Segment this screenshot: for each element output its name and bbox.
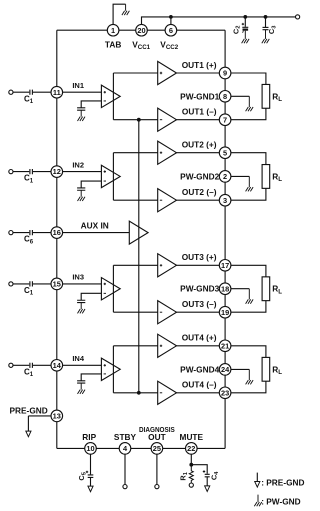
ground PW-GND under input cap (ch3): [78, 303, 86, 314]
svg-text:OUT4 (–): OUT4 (–): [182, 380, 217, 390]
svg-text:STBY: STBY: [114, 432, 137, 442]
svg-text:RIP: RIP: [82, 432, 96, 442]
ground PW-GND at pin stub (ch4): [246, 369, 254, 384]
svg-text:C1: C1: [24, 367, 34, 378]
pin 4 STBY: [119, 443, 131, 455]
capacitor AC-ground (ch3): [77, 300, 85, 302]
svg-text:20: 20: [137, 26, 145, 35]
pin 20 VCC1: [136, 24, 148, 36]
svg-text:OUT1 (+): OUT1 (+): [182, 60, 217, 70]
pin 23 OUT4(-): [219, 387, 231, 399]
wire C6 to pin 16: [33, 232, 51, 234]
svg-text:25: 25: [153, 444, 161, 453]
wire pin to load RL top (ch4): [231, 346, 266, 358]
wire pin to load RL top (ch1): [231, 73, 266, 84]
svg-text:C4: C4: [210, 471, 220, 480]
svg-text:11: 11: [53, 88, 61, 97]
wire branch vertical (ch1): [112, 73, 114, 120]
node input terminal IN2: [9, 170, 13, 174]
wire branch vertical (ch2): [112, 153, 114, 201]
svg-text:OUT3 (–): OUT3 (–): [182, 299, 217, 309]
minus marker OUT4(-) amp: [160, 392, 162, 394]
wire inverting input stub (ch4): [81, 374, 101, 381]
wire right bus (output pins column): [224, 30, 226, 448]
wire OUT4(+) amp to pin: [177, 345, 220, 347]
wire OUT1(-) amp to pin: [177, 119, 220, 121]
pin 21 OUT4(+): [219, 340, 231, 352]
wire OUT3(-) amp to pin: [177, 311, 220, 313]
svg-text:R1: R1: [179, 471, 189, 480]
svg-text:: PRE-GND: : PRE-GND: [261, 478, 304, 488]
svg-text:OUT3 (+): OUT3 (+): [182, 252, 217, 262]
pin 3 OUT2(-): [219, 194, 231, 206]
svg-text:24: 24: [221, 365, 230, 374]
wire C1 to pin 15: [33, 283, 51, 285]
junction mute node: [189, 463, 193, 467]
wire PW-GND3 pin stub: [231, 288, 249, 290]
plus marker OUT3(+) amp: [160, 264, 162, 266]
capacitor C4 (mute): [205, 474, 210, 477]
ground PW-GND under C3: [262, 30, 270, 44]
wire bottom bus (RIP/STBY/OUT/MUTE row): [57, 447, 225, 449]
svg-text:PW-GND2: PW-GND2: [180, 171, 219, 181]
svg-text:OUT4 (+): OUT4 (+): [182, 333, 217, 343]
label C2: [231, 26, 241, 35]
svg-text:9: 9: [223, 69, 227, 78]
capacitor C1 input coupling (ch3): [30, 281, 33, 286]
ground PW-GND under C2: [242, 31, 250, 44]
wire input terminal to capacitor C1 (ch2): [13, 171, 29, 173]
svg-text:8: 8: [223, 92, 227, 101]
wire centre bus (ch1 to ch4): [138, 120, 140, 393]
svg-text:C1: C1: [24, 174, 34, 185]
op-amp output stage OUT4(+): [158, 334, 177, 357]
svg-text:RL: RL: [272, 364, 282, 376]
svg-text:C6: C6: [24, 235, 34, 246]
ground PW-GND under input cap (ch4): [78, 383, 86, 394]
minus input marker U3A: [104, 292, 106, 294]
svg-text:19: 19: [221, 308, 229, 317]
junction at capacitor C3 tap: [264, 15, 268, 19]
capacitor AC-ground (ch4): [77, 381, 85, 383]
ground PW-GND at pin stub (ch3): [246, 289, 254, 304]
svg-text:PW-GND1: PW-GND1: [180, 91, 219, 101]
wire OUT2(+) amp to pin: [177, 152, 220, 154]
pin 22 MUTE: [186, 443, 198, 455]
pin 13 PRE-GND: [51, 410, 63, 422]
ground PW-GND at pin stub (ch1): [246, 96, 254, 111]
label C3: [267, 25, 277, 34]
node standby terminal: [123, 485, 127, 489]
wire upper branch to OUT2(+) amp: [113, 152, 157, 154]
svg-text:15: 15: [53, 280, 61, 289]
wire upper branch to OUT3(+) amp: [113, 264, 157, 266]
pin 18 PW-GND3: [219, 283, 231, 295]
pin 11 IN1: [51, 86, 63, 98]
wire inverting input stub (ch3): [81, 293, 101, 300]
svg-text:18: 18: [221, 284, 229, 293]
polarity + of C4: [203, 470, 205, 472]
svg-text:2: 2: [223, 172, 227, 181]
wire aux terminal to capacitor C6: [13, 232, 29, 234]
svg-text:C3: C3: [267, 25, 277, 34]
wire RL bottom to pin (ch4): [231, 381, 266, 393]
wire pin to load RL top (ch2): [231, 153, 266, 165]
node input terminal IN3: [9, 282, 13, 286]
pin 24 PW-GND4: [219, 364, 231, 376]
minus input marker U1A: [104, 100, 106, 102]
op-amp output stage OUT4(-): [158, 381, 177, 404]
wire inverting input stub (ch2): [81, 181, 101, 188]
node input terminal IN1: [9, 90, 13, 94]
node input terminal AUX: [9, 231, 13, 235]
svg-text:12: 12: [53, 167, 61, 176]
pin 2 PW-GND2: [219, 171, 231, 183]
resistor RL (ch3): [262, 277, 270, 301]
op-amp input stage U3A: [101, 278, 120, 300]
junction centre bus at ch1: [137, 118, 141, 122]
wire input terminal to capacitor C1 (ch3): [13, 283, 29, 285]
svg-text:7: 7: [223, 115, 227, 124]
ground PW-GND at TAB: [122, 4, 129, 15]
node supply terminal: [296, 15, 300, 19]
polarity + of C2: [242, 23, 244, 25]
svg-text:1: 1: [111, 26, 115, 35]
svg-text:C1: C1: [24, 286, 34, 297]
svg-text:OUT1 (–): OUT1 (–): [182, 107, 217, 117]
polarity + of C5: [86, 471, 88, 473]
svg-text:RL: RL: [272, 284, 282, 296]
svg-text:16: 16: [53, 228, 61, 237]
wire RL bottom to pin (ch1): [231, 108, 266, 119]
svg-text:PW-GND4: PW-GND4: [180, 364, 219, 374]
svg-text:RL: RL: [272, 91, 282, 103]
capacitor C6 aux coupling: [30, 230, 33, 235]
resistor R1 (mute): [189, 465, 193, 483]
pin 16 AUX IN: [51, 227, 63, 239]
pin 7 OUT1(-): [219, 114, 231, 126]
wire OUT3(+) amp to pin: [177, 264, 220, 266]
junction at capacitor C2 tap: [243, 15, 247, 19]
wire pin 22 to mute junction: [190, 454, 192, 465]
wire C1 to pin 11: [33, 91, 51, 93]
wire pin 25 to diagnosis terminal: [156, 454, 158, 484]
pin 5 OUT2(+): [219, 147, 231, 159]
plus input marker U1A: [104, 91, 106, 93]
op-amp input stage U4A: [101, 358, 120, 380]
wire PW-GND4 pin stub: [231, 368, 249, 370]
wire lower branch to OUT3(-) amp: [113, 311, 157, 313]
wire VCC supply bus: [142, 17, 296, 25]
svg-text:3: 3: [223, 196, 227, 205]
wire top bus (TAB/VCC row): [57, 29, 225, 31]
svg-text:PW-GND3: PW-GND3: [180, 284, 219, 294]
svg-text:17: 17: [221, 261, 229, 270]
node mute terminal: [189, 483, 193, 487]
svg-text:IN2: IN2: [72, 160, 84, 169]
wire pin 16 to aux buffer: [63, 232, 130, 234]
pin 9 OUT1(+): [219, 67, 231, 79]
svg-text:C1: C1: [24, 94, 34, 105]
ground PRE-GND under C5: [88, 477, 93, 491]
ground PW-GND under input cap (ch2): [78, 190, 86, 201]
wire pin 15 to op-amp input (IN3): [63, 283, 102, 285]
capacitor C3 supply decoupling: [263, 17, 269, 30]
svg-text:13: 13: [53, 412, 61, 421]
ground PW-GND under input cap (ch1): [78, 110, 86, 121]
svg-text:14: 14: [53, 361, 62, 370]
svg-text:21: 21: [221, 341, 229, 350]
wire pin 12 to op-amp input (IN2): [63, 171, 102, 173]
pin 8 PW-GND1: [219, 91, 231, 103]
svg-text:C2: C2: [231, 26, 241, 35]
svg-text:23: 23: [221, 388, 229, 397]
wire input terminal to capacitor C1 (ch4): [13, 364, 29, 366]
wire left bus (pins 11-12-16-15-14-13 column): [56, 30, 58, 448]
wire pin to load RL top (ch3): [231, 265, 266, 277]
pin 14 IN4: [51, 360, 63, 372]
wire upper branch to OUT4(+) amp: [113, 345, 157, 347]
pin 1 TAB: [107, 24, 119, 36]
resistor RL (ch4): [262, 357, 270, 381]
wire pin 14 to op-amp input (IN4): [63, 364, 102, 366]
legend PRE-GND symbol: [255, 473, 260, 488]
ground PRE-GND at pin 13: [26, 416, 31, 437]
wire pin 10 to capacitor C5: [90, 454, 92, 474]
label C4: [210, 471, 220, 480]
svg-text:IN4: IN4: [72, 354, 85, 363]
wire branch vertical (ch3): [112, 265, 114, 312]
plus marker OUT2(+) amp: [160, 152, 162, 154]
resistor RL (ch2): [262, 165, 270, 189]
wire C1 to pin 14: [33, 364, 51, 366]
svg-text:VCC1: VCC1: [132, 39, 150, 51]
junction at pin 6 riser: [169, 15, 173, 19]
op-amp output stage OUT3(-): [158, 301, 177, 324]
wire pin 4 to standby terminal: [124, 454, 126, 484]
plus input marker U3A: [104, 283, 106, 285]
svg-text:RL: RL: [272, 171, 282, 183]
capacitor C2 (electrolytic) supply decoupling: [242, 17, 248, 33]
svg-text:22: 22: [187, 444, 195, 453]
plus marker OUT1(+) amp: [160, 72, 162, 74]
capacitor C1 input coupling (ch4): [30, 363, 33, 368]
wire lower branch to OUT1(-) amp: [113, 119, 157, 121]
capacitor AC-ground (ch2): [77, 188, 85, 190]
junction centre bus at ch4: [137, 391, 141, 395]
wire RL bottom to pin (ch3): [231, 301, 266, 313]
minus marker OUT1(-) amp: [160, 119, 162, 121]
wire branch vertical (ch4): [112, 346, 114, 393]
capacitor C1 input coupling (ch1): [30, 90, 33, 95]
wire inverting input stub (ch1): [81, 101, 101, 108]
wire OUT2(-) amp to pin: [177, 199, 220, 201]
op-amp aux buffer: [129, 221, 148, 244]
svg-text:OUT: OUT: [148, 432, 166, 442]
wire lower branch to OUT2(-) amp: [113, 199, 157, 201]
minus input marker U2A: [104, 180, 106, 182]
op-amp input stage U1A: [101, 85, 120, 107]
svg-text:6: 6: [169, 26, 173, 35]
wire PW-GND2 pin stub: [231, 175, 249, 177]
pin 19 OUT3(-): [219, 306, 231, 318]
svg-text:5: 5: [223, 148, 227, 157]
pin 25 DIAGNOSIS OUT: [151, 443, 163, 455]
op-amp output stage OUT3(+): [158, 254, 177, 277]
pin 12 IN2: [51, 166, 63, 178]
minus input marker U4A: [104, 373, 106, 375]
svg-text:C5: C5: [77, 471, 87, 480]
wire pin 6 riser to supply bus: [170, 17, 172, 25]
wire TAB pin 1 to ground: [113, 4, 126, 24]
svg-text:PRE-GND: PRE-GND: [10, 405, 48, 415]
wire input terminal to capacitor C1 (ch1): [13, 91, 29, 93]
pin 17 OUT3(+): [219, 260, 231, 272]
svg-text:TAB: TAB: [105, 39, 121, 49]
wire pin 11 to op-amp input (IN1): [63, 91, 102, 93]
capacitor AC-ground (ch1): [77, 108, 85, 110]
svg-text:IN3: IN3: [72, 273, 84, 282]
plus input marker U2A: [104, 170, 106, 172]
op-amp output stage OUT2(+): [158, 141, 177, 164]
node input terminal IN4: [9, 363, 13, 367]
svg-text:IN1: IN1: [72, 81, 84, 90]
label C5: [77, 471, 87, 480]
svg-text:VCC2: VCC2: [160, 39, 178, 51]
wire C1 to pin 12: [33, 171, 51, 173]
svg-text:MUTE: MUTE: [180, 432, 204, 442]
op-amp output stage OUT1(+): [158, 61, 177, 84]
svg-text:: PW-GND: : PW-GND: [261, 496, 300, 506]
pin 15 IN3: [51, 278, 63, 290]
plus marker OUT4(+) amp: [160, 345, 162, 347]
op-amp output stage OUT1(-): [158, 108, 177, 131]
pin 6 VCC2: [165, 24, 177, 36]
plus input marker U4A: [104, 364, 106, 366]
node diagnosis terminal: [155, 485, 159, 489]
wire upper branch to OUT1(+) amp: [113, 72, 157, 74]
wire PW-GND1 pin stub: [231, 95, 249, 97]
label R1: [179, 471, 189, 480]
wire RL bottom to pin (ch2): [231, 188, 266, 200]
wire OUT4(-) amp to pin: [177, 392, 220, 394]
wire OUT1(+) amp to pin: [177, 72, 220, 74]
capacitor C1 input coupling (ch2): [30, 169, 33, 174]
op-amp output stage OUT2(-): [158, 189, 177, 212]
ground PRE-GND under C4: [205, 477, 210, 492]
resistor RL (ch1): [262, 84, 270, 108]
svg-text:10: 10: [86, 444, 94, 453]
wire lower branch to OUT4(-) amp: [113, 392, 157, 394]
op-amp input stage U2A: [101, 165, 120, 187]
pin 10 RIP: [85, 443, 97, 455]
ground PW-GND at pin stub (ch2): [246, 176, 254, 191]
wire pin 13 to PRE-GND symbol: [28, 415, 51, 417]
svg-text:AUX IN: AUX IN: [81, 221, 109, 231]
capacitor C5 (ripple): [88, 475, 94, 478]
svg-text:OUT2 (+): OUT2 (+): [182, 140, 217, 150]
minus marker OUT3(-) amp: [160, 311, 162, 313]
svg-text:OUT2 (–): OUT2 (–): [182, 187, 217, 197]
legend PW-GND symbol: [254, 495, 261, 507]
wire mute junction to capacitor C4: [191, 465, 207, 474]
minus marker OUT2(-) amp: [160, 199, 162, 201]
